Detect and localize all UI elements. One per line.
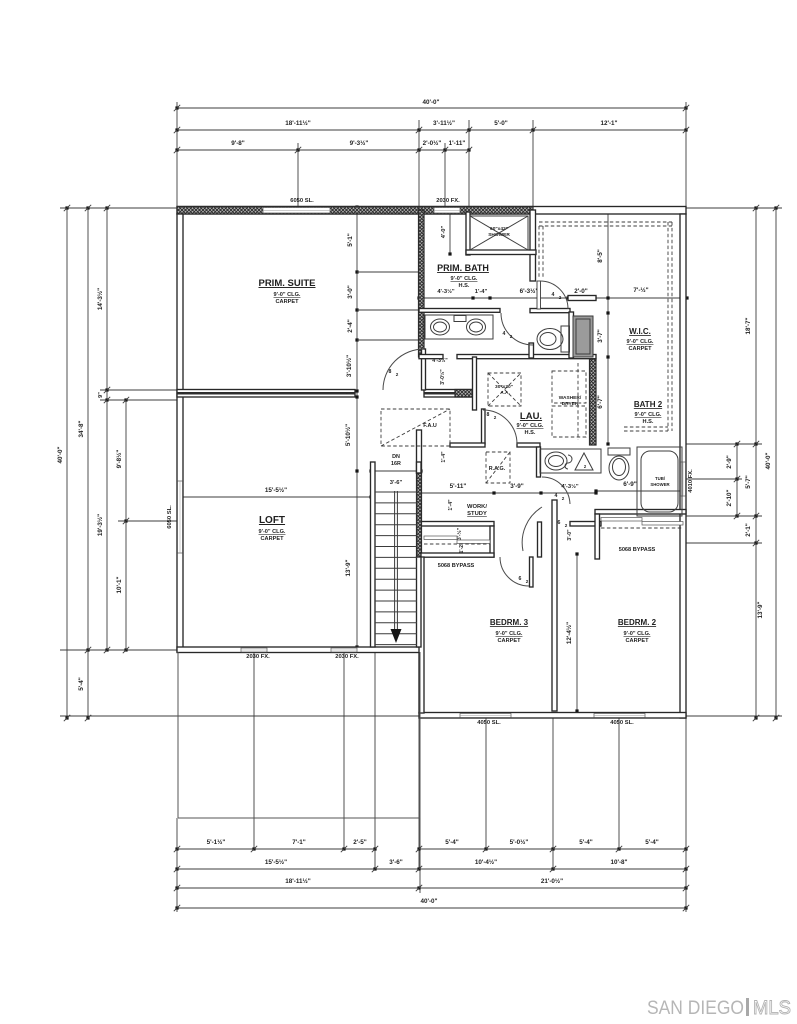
svg-text:BEDRM. 3: BEDRM. 3 xyxy=(490,618,529,627)
svg-text:5'-1½": 5'-1½" xyxy=(207,838,226,846)
svg-text:4'-3½": 4'-3½" xyxy=(561,483,579,490)
svg-text:30"x30": 30"x30" xyxy=(495,384,513,390)
svg-text:CARPET: CARPET xyxy=(498,638,522,644)
svg-text:2'-0": 2'-0" xyxy=(574,288,588,295)
svg-text:7'-1": 7'-1" xyxy=(292,839,306,846)
svg-text:2'-10": 2'-10" xyxy=(726,489,733,506)
svg-text:9'-0" CLG.: 9'-0" CLG. xyxy=(451,276,478,282)
svg-text:CARPET: CARPET xyxy=(626,638,650,644)
svg-text:3'-0": 3'-0" xyxy=(567,529,573,541)
svg-text:4050 SL.: 4050 SL. xyxy=(477,720,501,726)
svg-text:10'-1": 10'-1" xyxy=(116,576,123,593)
svg-text:3'-9": 3'-9" xyxy=(510,483,524,490)
svg-text:5'-0½": 5'-0½" xyxy=(510,838,529,846)
svg-text:5'-11": 5'-11" xyxy=(450,483,467,490)
svg-text:2: 2 xyxy=(559,295,562,300)
svg-text:CARPET: CARPET xyxy=(261,536,285,542)
svg-text:R.A.G.: R.A.G. xyxy=(489,466,506,472)
svg-text:LAU.: LAU. xyxy=(520,411,542,422)
svg-text:3'-11½": 3'-11½" xyxy=(433,119,455,127)
svg-text:2'-4": 2'-4" xyxy=(347,319,354,333)
svg-text:9'-0" CLG.: 9'-0" CLG. xyxy=(627,339,654,345)
svg-text:9'-0" CLG.: 9'-0" CLG. xyxy=(635,412,662,418)
svg-text:21'-0½": 21'-0½" xyxy=(541,877,563,885)
svg-text:5'-0": 5'-0" xyxy=(494,120,508,127)
svg-text:3'-10½": 3'-10½" xyxy=(345,355,353,377)
svg-text:CARPET: CARPET xyxy=(276,299,300,305)
svg-text:18'-7": 18'-7" xyxy=(745,317,752,334)
svg-text:A.A.: A.A. xyxy=(500,390,510,396)
svg-text:4'-3½": 4'-3½" xyxy=(437,288,455,295)
svg-text:6'-9": 6'-9" xyxy=(623,481,637,488)
svg-text:H.S.: H.S. xyxy=(459,283,470,289)
svg-text:H.S.: H.S. xyxy=(525,430,536,436)
svg-text:H.S.: H.S. xyxy=(643,419,654,425)
svg-text:13'-9": 13'-9" xyxy=(345,559,352,576)
svg-text:2: 2 xyxy=(562,496,565,501)
svg-text:18'-11½": 18'-11½" xyxy=(285,877,311,885)
svg-text:BATH 2: BATH 2 xyxy=(634,400,663,409)
svg-text:6050 SL.: 6050 SL. xyxy=(290,198,314,204)
svg-text:19'-3½": 19'-3½" xyxy=(96,514,104,536)
svg-text:5068 BYPASS: 5068 BYPASS xyxy=(619,547,656,553)
svg-text:SHOWER: SHOWER xyxy=(488,232,510,238)
svg-text:6'-7": 6'-7" xyxy=(597,395,604,409)
svg-text:18'-11½": 18'-11½" xyxy=(285,119,311,127)
svg-text:DN: DN xyxy=(392,454,400,460)
svg-text:4: 4 xyxy=(552,292,555,298)
svg-text:4050 SL.: 4050 SL. xyxy=(610,720,634,726)
svg-text:3'-0½": 3'-0½" xyxy=(439,369,446,385)
svg-text:2: 2 xyxy=(526,579,529,584)
svg-text:9'-0" CLG.: 9'-0" CLG. xyxy=(496,631,523,637)
svg-text:9'-0" CLG.: 9'-0" CLG. xyxy=(517,423,544,429)
svg-text:3'-6": 3'-6" xyxy=(389,859,403,866)
svg-text:SHOWER: SHOWER xyxy=(650,482,670,487)
svg-text:10'-4½": 10'-4½" xyxy=(475,858,497,866)
svg-text:2'-1": 2'-1" xyxy=(745,523,752,537)
svg-text:10'-8": 10'-8" xyxy=(610,859,627,866)
svg-text:5'-1": 5'-1" xyxy=(347,233,354,247)
svg-text:40'-0": 40'-0" xyxy=(765,452,772,469)
svg-text:34'-8": 34'-8" xyxy=(78,420,85,437)
svg-text:14'-3½": 14'-3½" xyxy=(96,288,104,310)
svg-text:1'-4": 1'-4" xyxy=(448,499,454,511)
svg-text:PRIM. BATH: PRIM. BATH xyxy=(437,263,489,273)
svg-text:WORK/: WORK/ xyxy=(467,504,487,510)
svg-text:2'-5": 2'-5" xyxy=(353,839,367,846)
svg-text:F.A.U: F.A.U xyxy=(423,423,437,429)
svg-text:SAN DIEGO: SAN DIEGO xyxy=(647,997,744,1019)
svg-text:9'-0" CLG.: 9'-0" CLG. xyxy=(624,631,651,637)
svg-text:7'-½": 7'-½" xyxy=(633,286,648,294)
svg-text:STUDY: STUDY xyxy=(467,511,487,517)
svg-text:9'-0" CLG.: 9'-0" CLG. xyxy=(259,529,286,535)
svg-text:13'-9": 13'-9" xyxy=(757,601,764,618)
svg-text:MLS: MLS xyxy=(753,997,791,1019)
svg-text:WASHER/: WASHER/ xyxy=(559,395,582,401)
svg-text:9'-3½": 9'-3½" xyxy=(350,139,369,147)
svg-text:40'-0": 40'-0" xyxy=(420,898,437,905)
svg-text:2: 2 xyxy=(510,334,513,339)
svg-text:TUB/: TUB/ xyxy=(655,476,666,481)
svg-text:LOFT: LOFT xyxy=(259,515,285,526)
svg-text:12'-4½": 12'-4½" xyxy=(565,622,573,644)
svg-text:6: 6 xyxy=(558,520,561,526)
svg-text:2: 2 xyxy=(565,523,568,528)
svg-text:40'-0": 40'-0" xyxy=(57,446,64,463)
svg-text:9'-8½": 9'-8½" xyxy=(115,450,123,469)
svg-text:2030 FX.: 2030 FX. xyxy=(436,198,460,204)
svg-text:3'-7": 3'-7" xyxy=(597,329,604,343)
svg-text:DRYER: DRYER xyxy=(562,401,579,407)
svg-text:5068 BYPASS: 5068 BYPASS xyxy=(438,563,475,569)
svg-text:2'-0½": 2'-0½" xyxy=(423,139,442,147)
svg-text:4010 FX.: 4010 FX. xyxy=(688,469,694,493)
svg-text:BEDRM. 2: BEDRM. 2 xyxy=(618,618,657,627)
svg-text:6: 6 xyxy=(519,576,522,582)
svg-text:2030 FX.: 2030 FX. xyxy=(335,654,359,660)
svg-text:15'-5½": 15'-5½" xyxy=(265,858,287,866)
svg-text:1'-11": 1'-11" xyxy=(449,140,466,147)
svg-text:3'-0": 3'-0" xyxy=(347,285,354,299)
svg-text:8: 8 xyxy=(487,412,490,418)
svg-text:2'-9": 2'-9" xyxy=(726,455,733,469)
svg-text:6050 SL.: 6050 SL. xyxy=(167,505,173,529)
svg-text:2: 2 xyxy=(396,372,399,377)
svg-text:3'-6": 3'-6" xyxy=(390,480,403,486)
svg-text:60"x42": 60"x42" xyxy=(490,226,508,232)
svg-text:CARPET: CARPET xyxy=(629,346,653,352)
svg-text:40'-0": 40'-0" xyxy=(422,99,439,106)
svg-text:5'-4": 5'-4" xyxy=(579,839,593,846)
svg-text:16R: 16R xyxy=(391,461,401,467)
svg-text:5'-4": 5'-4" xyxy=(445,839,459,846)
svg-text:4'-0": 4'-0" xyxy=(441,226,447,239)
svg-text:5'-7": 5'-7" xyxy=(745,475,752,489)
svg-text:15'-5½": 15'-5½" xyxy=(265,486,287,494)
svg-text:5'-4": 5'-4" xyxy=(78,677,85,691)
svg-text:8'-5": 8'-5" xyxy=(597,249,604,263)
svg-text:8: 8 xyxy=(389,369,392,375)
svg-text:2030 FX.: 2030 FX. xyxy=(246,654,270,660)
svg-text:12'-1": 12'-1" xyxy=(600,120,617,127)
svg-text:1'-4": 1'-4" xyxy=(441,451,447,463)
svg-text:5'-4": 5'-4" xyxy=(645,839,659,846)
svg-text:2: 2 xyxy=(494,415,497,420)
svg-text:5'-10½": 5'-10½" xyxy=(344,424,352,446)
svg-text:W.I.C.: W.I.C. xyxy=(629,327,651,336)
svg-text:4: 4 xyxy=(503,331,506,337)
svg-text:6'-3½": 6'-3½" xyxy=(520,287,539,295)
svg-text:9'-8": 9'-8" xyxy=(231,140,245,147)
svg-text:PRIM. SUITE: PRIM. SUITE xyxy=(258,278,315,289)
svg-text:1'-4": 1'-4" xyxy=(475,289,488,295)
svg-text:9'-0" CLG.: 9'-0" CLG. xyxy=(274,292,301,298)
svg-text:9": 9" xyxy=(98,392,104,398)
svg-text:4: 4 xyxy=(555,493,558,499)
